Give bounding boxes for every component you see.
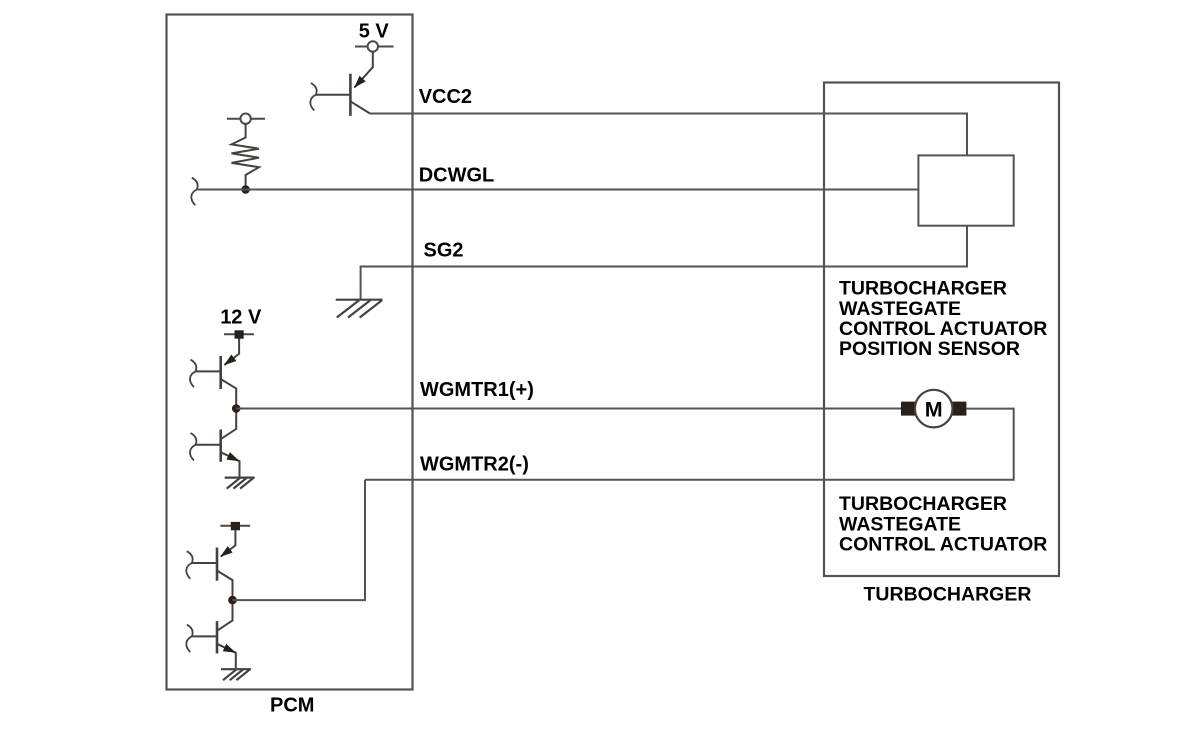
connector break (DCWGL left) bbox=[191, 178, 197, 206]
svg-text:TURBOCHARGER: TURBOCHARGER bbox=[839, 493, 1007, 515]
pull-up supply terminal bbox=[227, 114, 265, 124]
junction (R1 / DCWGL) bbox=[241, 185, 250, 194]
svg-text:DCWGL: DCWGL bbox=[419, 164, 495, 186]
svg-text:SG2: SG2 bbox=[424, 240, 464, 262]
ground (SG2) bbox=[336, 300, 383, 318]
arrow (Q3 emitter) bbox=[226, 452, 241, 465]
junction (WGMTR1 node) bbox=[232, 404, 241, 413]
svg-text:WGMTR1(+): WGMTR1(+) bbox=[420, 379, 534, 401]
wire WGMTR2 bbox=[365, 409, 1014, 480]
12V supply terminal bbox=[224, 330, 254, 338]
transistor Q4 (PNP, WGMTR2 high side) bbox=[192, 530, 236, 600]
wire DCWGL bbox=[197, 189, 919, 191]
connector break (base of Q4) bbox=[186, 551, 192, 579]
svg-text:TURBOCHARGER: TURBOCHARGER bbox=[839, 278, 1007, 300]
transistor Q5 (NPN, WGMTR2 low side) bbox=[192, 600, 236, 668]
wire (WGMTR2 node to line) bbox=[233, 480, 366, 600]
svg-text:WASTEGATE: WASTEGATE bbox=[839, 298, 961, 320]
5V supply terminal bbox=[355, 41, 394, 51]
ground (Q5 emitter) bbox=[221, 669, 251, 680]
arrow (Q2 emitter) bbox=[221, 355, 236, 369]
junction (WGMTR2 node) bbox=[228, 596, 237, 605]
TURBOCHARGER box bbox=[824, 83, 1059, 577]
ground (Q3 emitter) bbox=[225, 478, 255, 489]
PCM box bbox=[167, 15, 413, 690]
svg-text:5 V: 5 V bbox=[359, 21, 390, 43]
svg-text:M: M bbox=[925, 397, 943, 421]
sensor box bbox=[918, 155, 1013, 225]
svg-text:CONTROL ACTUATOR: CONTROL ACTUATOR bbox=[839, 318, 1047, 340]
svg-text:PCM: PCM bbox=[270, 694, 314, 716]
svg-text:WASTEGATE: WASTEGATE bbox=[839, 513, 961, 535]
svg-text:12 V: 12 V bbox=[220, 306, 262, 328]
text block: control actuator bbox=[839, 493, 1047, 555]
svg-text:WGMTR2(-): WGMTR2(-) bbox=[420, 454, 529, 476]
svg-text:CONTROL ACTUATOR: CONTROL ACTUATOR bbox=[839, 534, 1047, 556]
wire VCC2 bbox=[370, 114, 967, 156]
svg-text:VCC2: VCC2 bbox=[419, 86, 472, 108]
wire WGMTR1 bbox=[236, 408, 901, 410]
12V supply terminal 2 bbox=[220, 522, 250, 530]
transistor Q1 (PNP, VCC2 driver) bbox=[316, 52, 373, 116]
connector break (base of Q3) bbox=[190, 433, 196, 461]
transistor Q3 (NPN, WGMTR1 low side) bbox=[196, 409, 240, 477]
motor M bbox=[901, 390, 966, 428]
wire SG2 bbox=[361, 226, 967, 300]
connector break (base of Q2) bbox=[190, 360, 196, 388]
connector break (base of Q1) bbox=[310, 83, 316, 111]
svg-text:POSITION SENSOR: POSITION SENSOR bbox=[839, 338, 1020, 360]
svg-text:TURBOCHARGER: TURBOCHARGER bbox=[864, 584, 1032, 606]
arrow (Q4 emitter) bbox=[218, 546, 233, 560]
connector break (base of Q5) bbox=[186, 625, 192, 653]
transistor Q2 (PNP, WGMTR1 high side) bbox=[196, 339, 240, 409]
arrow (Q1 emitter) bbox=[351, 76, 366, 91]
arrow (Q5 emitter) bbox=[223, 644, 238, 657]
text block: position sensor bbox=[839, 278, 1047, 361]
resistor R1 bbox=[232, 124, 260, 190]
